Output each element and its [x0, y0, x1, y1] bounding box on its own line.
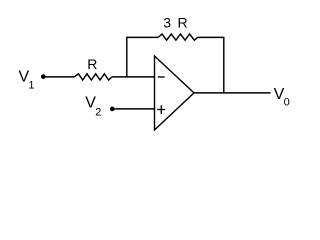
node V2 terminal dot: [110, 107, 115, 112]
op-amp U1: [155, 56, 195, 130]
wire V1 dot to resistor R: [46, 76, 75, 78]
svg-text:2: 2: [95, 107, 101, 119]
svg-text:R: R: [87, 56, 97, 72]
wire resistor R to op-amp inverting input: [112, 76, 155, 78]
svg-text:3: 3: [163, 15, 171, 31]
svg-text:1: 1: [28, 79, 34, 91]
svg-text:R: R: [178, 15, 188, 31]
resistor R: [74, 74, 112, 80]
label V1: [19, 69, 35, 92]
wire op-amp output: [194, 92, 271, 94]
wire feedback left vertical: [126, 37, 128, 77]
wire feedback right vertical: [223, 37, 225, 93]
label V0: [274, 86, 290, 108]
label 3 R: [163, 15, 187, 31]
op-amp inverting input minus sign: [158, 76, 165, 78]
wire feedback top right segment: [198, 36, 225, 38]
svg-text:0: 0: [284, 97, 290, 109]
node V1 terminal dot: [41, 74, 46, 79]
wire V2 dot to op-amp non-inverting input: [115, 108, 155, 110]
label V2: [85, 95, 101, 119]
resistor 3R: [158, 34, 198, 40]
op-amp non-inverting input plus sign: [157, 105, 165, 114]
wire feedback top left segment: [126, 36, 158, 38]
